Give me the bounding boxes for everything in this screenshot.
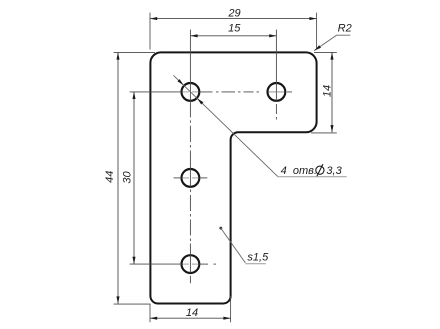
- plate outline (L-shaped bracket): [150, 52, 316, 303]
- centerline vertical through H1 H3 H4: [189, 30, 191, 284]
- hole H3 middle: [182, 169, 200, 187]
- extension line 44 bottom: [114, 303, 151, 305]
- extension line 14R top: [314, 51, 337, 53]
- svg-text:30: 30: [121, 171, 133, 184]
- dimension line 44: [117, 52, 119, 303]
- dimension line 14 right: [331, 52, 333, 132]
- hole H1 top-left: [182, 83, 200, 101]
- extension line 14B right: [230, 296, 232, 322]
- dimension line 29: [150, 18, 317, 20]
- svg-text:R2: R2: [338, 23, 352, 35]
- leader s1,5: [219, 227, 222, 230]
- svg-text:29: 29: [227, 8, 240, 20]
- extension line 44 top: [114, 51, 155, 53]
- svg-text:15: 15: [228, 23, 241, 35]
- diameter symbol: [316, 166, 324, 174]
- extension line 14R bottom: [311, 132, 337, 134]
- svg-text:14: 14: [186, 307, 198, 319]
- centerline horizontal H3: [174, 177, 208, 179]
- centerline horizontal top holes: [130, 91, 292, 93]
- hole H2 top-right: [268, 83, 286, 101]
- svg-text:3,3: 3,3: [326, 165, 342, 177]
- dimension line 15: [190, 35, 276, 37]
- svg-text:s1,5: s1,5: [247, 252, 269, 264]
- extension line 29 left: [149, 13, 151, 50]
- dimension line 14 bottom: [150, 317, 231, 319]
- leader 4 holes: [174, 75, 278, 176]
- svg-text:14: 14: [322, 85, 334, 97]
- extension line 14B left: [149, 305, 151, 323]
- centerline horizontal H4: [130, 263, 216, 265]
- hole H4 bottom: [182, 255, 200, 273]
- leader R2: [314, 35, 350, 50]
- extension line 29 right: [316, 13, 318, 50]
- svg-text:44: 44: [104, 171, 116, 183]
- svg-text:4 отв.: 4 отв.: [281, 165, 317, 177]
- dimension line 30: [133, 92, 135, 264]
- center marks light inside holes: [183, 92, 199, 264]
- centerline vertical through H2: [275, 30, 277, 120]
